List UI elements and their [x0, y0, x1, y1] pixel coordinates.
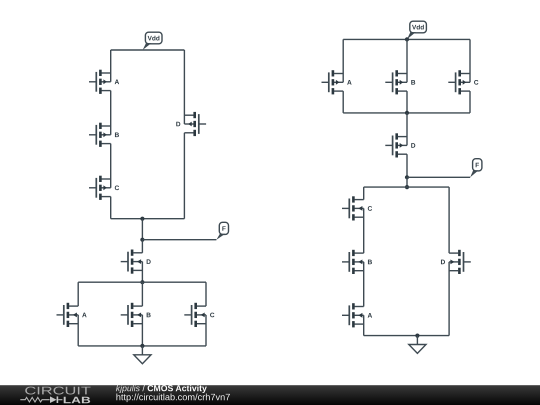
wire B to C [110, 144, 112, 188]
CircuitLab logo: diode symbol [50, 396, 57, 403]
transistor A (PMOS) [99, 70, 102, 76]
wire right branch: Vdd to D [183, 50, 185, 124]
wire A branch top (left box) [77, 282, 79, 306]
transistor A (NMOS) [67, 303, 70, 309]
wire D to bottom rail [183, 133, 185, 219]
transistor B (NMOS) [131, 303, 134, 309]
flag F (right circuit) [473, 159, 482, 171]
wire left branch: Vdd to A [110, 50, 112, 82]
transistor D (NMOS) [458, 250, 461, 256]
transistor A (NMOS) [352, 303, 355, 309]
node: ground junction (right) [415, 334, 419, 338]
wire A to B [110, 91, 112, 135]
wire A branch top (right PUN) [342, 39, 344, 82]
wire C to bottom rail [110, 197, 112, 219]
footer url line [116, 394, 229, 403]
wire C branch top (left box) [205, 282, 207, 306]
wire C branch segment (right PDN) [363, 187, 365, 200]
wire bottom rail of parallel PMOS box (right) [343, 112, 470, 114]
transistor D (NMOS) [131, 250, 134, 256]
node: top of parallel NMOS box (left) [140, 280, 144, 284]
wire D to node F (right) [406, 154, 408, 177]
wire B branch top (left box) [141, 282, 143, 306]
footer credit line [116, 385, 140, 393]
wire junction to node F (left) [141, 219, 143, 240]
power flag Vdd (left circuit) [145, 32, 162, 44]
node: top of pull-down box (right) [405, 185, 409, 189]
transistor B (PMOS) [99, 123, 102, 129]
CircuitLab logo: LAB wordmark [64, 397, 90, 403]
wire B branch bottom (left box) [141, 315, 143, 346]
wire F node to D (left pull-down) [141, 240, 143, 253]
wire D branch bottom (right PDN) [448, 262, 450, 336]
power flag Vdd (right circuit) [410, 21, 427, 33]
transistor A (PMOS) [332, 70, 335, 76]
node: bottom of parallel PMOS box (right) [405, 111, 409, 115]
transistor B (PMOS) [395, 70, 398, 76]
node: pull-up output junction (left) [140, 217, 144, 221]
wire to F flag (right) [407, 176, 470, 178]
transistor C (PMOS) [99, 176, 102, 182]
wire to F flag (left) [142, 239, 216, 241]
wire A to bottom rail (right PDN) [363, 315, 365, 335]
wire box to D (right) [406, 113, 408, 145]
transistor D (PMOS) [193, 112, 196, 118]
wire bottom rail of pull-up network (left) [111, 218, 185, 220]
wire A branch bottom (left box) [77, 315, 79, 346]
wire C branch bottom (right PUN) [469, 91, 471, 113]
transistor B (NMOS) [352, 250, 355, 256]
transistor C (PMOS) [458, 70, 461, 76]
CircuitLab logo: resistor zigzag [20, 397, 49, 402]
wire D branch top (right PDN) [448, 187, 450, 253]
node F junction (left) [140, 238, 144, 242]
footer bar [0, 385, 540, 405]
wire bottom rail of parallel box (left) [78, 345, 206, 347]
flag F (left circuit) [219, 222, 228, 234]
wire top rail of parallel box (left) [78, 281, 206, 283]
wire bottom rail of pull-down box (right) [364, 335, 449, 337]
node: Vdd junction (right) [405, 37, 409, 41]
transistor D (PMOS) [395, 133, 398, 139]
node F junction (right) [405, 175, 409, 179]
wire C branch bottom (left box) [205, 315, 207, 346]
wire C branch top (right PUN) [469, 39, 471, 82]
wire B to A (right PDN) [363, 262, 365, 307]
CircuitLab logo: CIRCUIT wordmark [25, 387, 90, 395]
wire B branch bottom (right PUN) [406, 91, 408, 113]
ground (right circuit) [416, 336, 418, 345]
transistor C (NMOS) [194, 303, 197, 309]
transistor C (NMOS) [352, 196, 355, 202]
wire Vdd rail (left) [111, 49, 185, 51]
wire Vdd rail (right) [343, 38, 470, 40]
wire D to parallel box (left) [141, 262, 143, 283]
ground (left circuit) [141, 346, 143, 355]
node: ground junction (left) [140, 344, 144, 348]
wire A branch bottom (right PUN) [342, 91, 344, 113]
wire top rail of pull-down box (right) [364, 186, 449, 188]
wire B branch top (right PUN) [406, 39, 408, 82]
wire C to B (right PDN) [363, 208, 365, 253]
wire F node to pull-down box (right) [406, 177, 408, 187]
